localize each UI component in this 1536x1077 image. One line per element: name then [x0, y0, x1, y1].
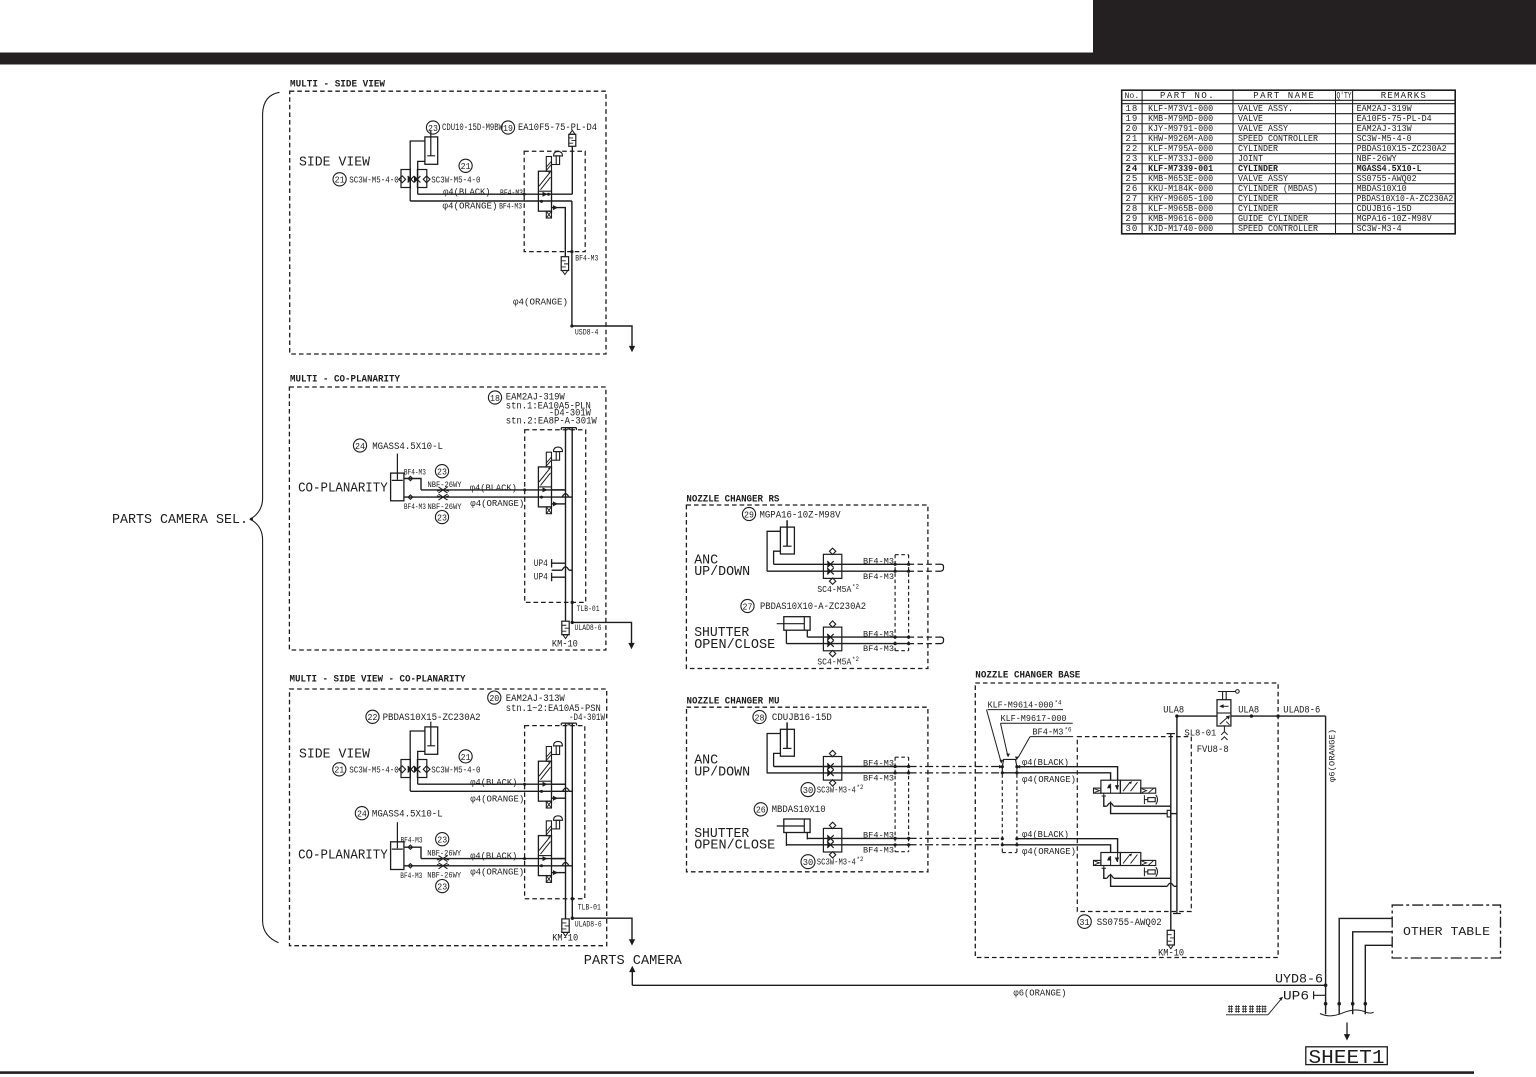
svg-text:PART NO.: PART NO. [1160, 91, 1215, 101]
svg-text:VALVE: VALVE [1238, 114, 1263, 124]
svg-text:BF4-M3: BF4-M3 [400, 871, 422, 881]
svg-text:ULAD8-6: ULAD8-6 [575, 623, 602, 633]
cylinder 26 shutter mu [784, 819, 810, 833]
svg-text:NOZZLE CHANGER MU: NOZZLE CHANGER MU [687, 696, 780, 708]
svg-text:CYLINDER (MBDAS): CYLINDER (MBDAS) [1238, 184, 1318, 194]
svg-text:KMB-M653E-000: KMB-M653E-000 [1148, 174, 1213, 184]
box MULTI - SIDE VIEW [290, 91, 606, 354]
svg-text:KHW-M926M-A00: KHW-M926M-A00 [1148, 134, 1213, 144]
svg-text:21: 21 [461, 161, 471, 172]
svg-text:ULA8: ULA8 [1238, 706, 1259, 717]
svg-text:PART NAME: PART NAME [1253, 91, 1315, 101]
svg-text:EA10F5-75-PL-D4: EA10F5-75-PL-D4 [518, 123, 597, 134]
svg-text:SC3W-M5-4-0: SC3W-M5-4-0 [1357, 134, 1412, 144]
svg-text:NBF-26WY: NBF-26WY [427, 849, 461, 859]
speed controller 30 SC3W-M3-4 mu lower [823, 828, 841, 852]
inner dashed box valves 20 [525, 726, 585, 899]
wire phi4 BLACK sec3 lower [421, 858, 566, 860]
svg-text:NBF-26WY: NBF-26WY [1357, 154, 1398, 164]
svg-text:MGASS4.5X10-L: MGASS4.5X10-L [372, 442, 443, 453]
dashed connector box rs [895, 555, 909, 651]
wire valve to filter [571, 146, 573, 194]
junction dots sec1 [523, 193, 526, 196]
svg-text:BF4-M3: BF4-M3 [863, 572, 894, 582]
filter KM-10 sec3 [562, 919, 569, 933]
wire phi4 ORANGE [410, 200, 572, 202]
svg-text:BF4-M3: BF4-M3 [404, 467, 426, 477]
svg-text:23: 23 [437, 512, 447, 523]
svg-text:φ4(ORANGE): φ4(ORANGE) [1022, 846, 1076, 857]
svg-text:SIDE VIEW: SIDE VIEW [299, 747, 371, 763]
svg-text:FVU8-8: FVU8-8 [1197, 745, 1229, 756]
svg-text:MGPA16-10Z-M98V: MGPA16-10Z-M98V [760, 510, 841, 521]
svg-text:φ6(ORANGE): φ6(ORANGE) [1013, 987, 1066, 998]
svg-text:31: 31 [1079, 917, 1090, 928]
svg-text:SC3W-M5-4-0: SC3W-M5-4-0 [431, 765, 480, 776]
svg-text:BF4-M3: BF4-M3 [1032, 727, 1063, 738]
label 26 MBDAS10X10 [754, 803, 767, 816]
svg-text:φ4(BLACK): φ4(BLACK) [1022, 757, 1069, 768]
svg-text:VALVE ASSY: VALVE ASSY [1238, 124, 1289, 134]
svg-text:JOINT: JOINT [1238, 154, 1264, 164]
svg-text:*6: *6 [1065, 727, 1072, 734]
svg-text:UP/DOWN: UP/DOWN [694, 766, 750, 781]
svg-text:30: 30 [803, 857, 814, 868]
svg-text:PARTS CAMERA: PARTS CAMERA [584, 953, 683, 969]
svg-text:UP4: UP4 [534, 573, 548, 584]
joint TLB-01 sec3 [571, 897, 574, 900]
svg-text:22: 22 [1125, 144, 1138, 154]
svg-text:OPEN/CLOSE: OPEN/CLOSE [694, 839, 775, 854]
joint TLB-01 [571, 601, 574, 604]
parts table [1122, 90, 1456, 234]
svg-text:CDUJB16-15D: CDUJB16-15D [772, 713, 832, 724]
wires ANC mu [774, 766, 909, 768]
wire phi4 BLACK base lower [1017, 839, 1118, 853]
svg-text:*2: *2 [857, 784, 864, 791]
svg-text:CYLINDER: CYLINDER [1238, 194, 1279, 204]
ULA8 line to right [1231, 715, 1326, 717]
svg-text:Q'TY: Q'TY [1337, 91, 1352, 101]
svg-text:φ4(BLACK): φ4(BLACK) [443, 187, 491, 198]
speed controller SC4-M5A rs lower [823, 627, 841, 651]
wire phi4 BLACK [418, 193, 573, 195]
cylinder 22 PBDAS10X15-ZC230A2 [425, 727, 438, 754]
manifold verticals sec3 [561, 723, 569, 725]
box MULTI - CO-PLANARITY [289, 387, 606, 650]
wire phi4 ORANGE sec3 lower [404, 865, 568, 867]
valve lower port [552, 503, 566, 505]
continuation dots [1324, 1002, 1328, 1006]
svg-text:18: 18 [490, 393, 500, 404]
wire phi4 BLACK sec3 upper [418, 783, 566, 785]
svg-text:SS0755-AWQ02: SS0755-AWQ02 [1357, 174, 1417, 184]
wire phi6 ORANGE right vertical [1325, 716, 1327, 1014]
svg-text:CDUJB16-15D: CDUJB16-15D [1357, 204, 1412, 214]
svg-text:OTHER TABLE: OTHER TABLE [1403, 926, 1490, 939]
svg-text:φ6(ORANGE): φ6(ORANGE) [1328, 729, 1338, 782]
flow control NBF-26WY pair [439, 487, 448, 493]
svg-text:NBF-26WY: NBF-26WY [428, 480, 462, 490]
label 23 lower [435, 510, 448, 523]
junction UYD8-6 [1324, 984, 1328, 988]
svg-text:26: 26 [756, 805, 766, 816]
valve 19 EA10F5-75-PL-D4 [546, 157, 551, 172]
wire phi4 ORANGE sec2 [404, 496, 568, 498]
part 22 PBDAS10X15-ZC230A2 label [366, 710, 379, 723]
svg-text:VALVE ASSY.: VALVE ASSY. [1238, 104, 1293, 114]
svg-text:SC4-M5A: SC4-M5A [817, 658, 852, 668]
valve 20 upper [546, 747, 551, 762]
part 19 EA10F5-75-PL-D4 label [501, 121, 514, 134]
svg-text:30: 30 [1125, 224, 1138, 234]
box NOZZLE CHANGER MU [687, 707, 928, 872]
svg-text:TLB-01: TLB-01 [577, 604, 600, 614]
svg-text:SC3W-M3-4: SC3W-M3-4 [1357, 224, 1402, 234]
label 21 SC3W-M5-4-0 left [333, 173, 346, 186]
svg-text:27: 27 [743, 601, 753, 612]
box NOZZLE CHANGER BASE [975, 683, 1278, 958]
svg-text:SL8-01: SL8-01 [1184, 727, 1216, 738]
svg-text:KLF-M7339-001: KLF-M7339-001 [1148, 164, 1214, 174]
svg-text:27: 27 [1125, 194, 1138, 204]
svg-text:KLF-M965B-000: KLF-M965B-000 [1148, 204, 1213, 214]
inner dashed box valve 19 [524, 151, 585, 251]
svg-text:PARTS CAMERA SEL.: PARTS CAMERA SEL. [112, 513, 248, 528]
svg-text:No.: No. [1125, 92, 1140, 101]
svg-text:*2: *2 [852, 584, 859, 591]
flow control NBF-26WY pair sec3 [439, 856, 448, 862]
svg-text:NBF-26WY: NBF-26WY [427, 871, 461, 881]
svg-text:φ4(BLACK): φ4(BLACK) [470, 850, 517, 861]
svg-text:MGASS4.5X10-L: MGASS4.5X10-L [372, 810, 443, 821]
svg-text:*2: *2 [852, 656, 859, 663]
valve FVU8-8 [1177, 715, 1217, 717]
footer black bar [0, 1071, 1474, 1074]
svg-text:CYLINDER: CYLINDER [1238, 164, 1279, 174]
svg-text:EAM2AJ-313W: EAM2AJ-313W [1357, 124, 1413, 134]
svg-text:BF4-M3: BF4-M3 [863, 759, 894, 769]
inner dashed box SS0755 [1077, 737, 1191, 912]
svg-text:24: 24 [355, 441, 365, 452]
svg-text:USD8-4: USD8-4 [575, 328, 599, 338]
svg-text:28: 28 [755, 712, 765, 723]
svg-text:φ4(ORANGE): φ4(ORANGE) [470, 794, 524, 805]
svg-text:CDU10-15D-M9BW: CDU10-15D-M9BW [442, 123, 503, 134]
label 18 EAM2AJ-319W [488, 391, 501, 404]
svg-text:CYLINDER: CYLINDER [1238, 144, 1279, 154]
svg-text:NOZZLE CHANGER BASE: NOZZLE CHANGER BASE [975, 670, 1080, 682]
valve 31 SS0755 upper [1094, 788, 1101, 793]
part 24 MGASS4.5X10-L label [353, 439, 366, 452]
svg-text:22: 22 [368, 712, 378, 723]
svg-text:φ4(ORANGE): φ4(ORANGE) [470, 498, 524, 509]
valve 18 EAM2AJ-319W [546, 452, 551, 467]
svg-text:BF4-M3: BF4-M3 [863, 845, 894, 855]
svg-text:ULAD8-6: ULAD8-6 [575, 920, 602, 930]
svg-text:BF4-M3: BF4-M3 [863, 774, 894, 784]
svg-text:CYLINDER: CYLINDER [1238, 204, 1279, 214]
svg-text:ULA8: ULA8 [1163, 706, 1184, 717]
svg-text:24: 24 [357, 809, 367, 820]
wire phi4 BLACK base upper [1017, 767, 1118, 781]
svg-text:stn.2:EA8P-A-301W: stn.2:EA8P-A-301W [506, 416, 597, 427]
svg-text:MULTI - CO-PLANARITY: MULTI - CO-PLANARITY [290, 374, 401, 386]
FVU8-8 lever [1218, 692, 1236, 700]
svg-text:TLB-01: TLB-01 [578, 903, 601, 913]
cylinder 23 CDU10-15D-M9BW [425, 137, 438, 164]
svg-text:*4: *4 [1055, 700, 1062, 707]
svg-text:φ4(BLACK): φ4(BLACK) [1022, 829, 1069, 840]
svg-text:23: 23 [1125, 154, 1138, 164]
svg-text:BF4-M3: BF4-M3 [401, 836, 423, 846]
cylinder 24 MGASS4.5X10-L [391, 473, 404, 501]
svg-text:SC3W-M5-4-0: SC3W-M5-4-0 [349, 765, 399, 776]
exhaust filter EA10F5 top [569, 134, 576, 146]
svg-text:KHY-M9605-100: KHY-M9605-100 [1148, 194, 1213, 204]
valve lower outputs [1104, 868, 1107, 878]
svg-text:φ4(BLACK): φ4(BLACK) [470, 483, 517, 494]
svg-text:BF4-M3: BF4-M3 [863, 831, 894, 841]
wire phi4 ORANGE base upper [1002, 773, 1110, 780]
svg-text:MULTI - SIDE VIEW: MULTI - SIDE VIEW [290, 79, 386, 91]
svg-text:24: 24 [1125, 164, 1138, 174]
header black bar [0, 53, 1536, 65]
OTHER TABLE wires [1339, 918, 1392, 1014]
svg-text:29: 29 [1125, 214, 1138, 224]
svg-text:SC3W-M3-4: SC3W-M3-4 [817, 786, 856, 796]
svg-text:21: 21 [461, 752, 471, 763]
svg-text:UP4: UP4 [534, 559, 548, 570]
wire orange down to USD8-4 [572, 201, 632, 349]
speed controller 21 SC3W-M5-4-0 left [401, 170, 410, 188]
speed controller 30 SC3W-M3-4 mu upper [823, 757, 841, 781]
valve 20 lower [546, 821, 551, 836]
svg-text:SS0755-AWQ02: SS0755-AWQ02 [1097, 918, 1162, 929]
filter KM-10 base [1167, 930, 1174, 945]
svg-text:UP6: UP6 [1283, 990, 1309, 1004]
svg-text:29: 29 [744, 509, 754, 520]
svg-text:UP/DOWN: UP/DOWN [694, 565, 750, 580]
svg-text:BF4-M3: BF4-M3 [863, 644, 894, 654]
label 23 lower sec3 [436, 880, 449, 893]
svg-text:PBDAS10X15-ZC230A2: PBDAS10X15-ZC230A2 [383, 713, 481, 724]
wires SHUTTER mu [807, 837, 908, 839]
svg-text:20: 20 [489, 693, 499, 704]
svg-text:SC3W-M3-4: SC3W-M3-4 [817, 858, 856, 868]
small dashed box connectors [1002, 768, 1017, 853]
svg-text:21: 21 [1125, 134, 1138, 144]
manifold verticals sec2 [561, 428, 569, 430]
label 23 upper [435, 465, 448, 478]
joint ULAD8-6 output [572, 622, 631, 645]
svg-text:30: 30 [803, 785, 814, 796]
svg-text:NOZZLE CHANGER RS: NOZZLE CHANGER RS [686, 494, 779, 506]
speed controller SC4-M5A rs upper [823, 554, 841, 578]
svg-text:VALVE ASSY: VALVE ASSY [1238, 174, 1289, 184]
label 29 MGPA16-10Z-M98V [742, 507, 755, 520]
part 24 MGASS4.5X10-L label sec3 [355, 807, 368, 820]
connector joint KLF [1002, 759, 1017, 766]
label 28 CDUJB16-15D [753, 710, 766, 723]
svg-text:BF4-M3: BF4-M3 [575, 253, 598, 263]
FVU8-8 exhaust [1221, 726, 1227, 740]
svg-text:KJD-M1740-000: KJD-M1740-000 [1148, 224, 1213, 234]
svg-text:26: 26 [1125, 184, 1138, 194]
guide cylinder 29 MGPA16 [780, 527, 794, 554]
wire valve lower port to breather [552, 208, 566, 257]
svg-text:REMARKS: REMARKS [1381, 91, 1427, 101]
speed controller 21 SC3W-M5-4-0 right [417, 760, 426, 778]
svg-text:KLF-M9614-000: KLF-M9614-000 [988, 700, 1054, 711]
label 21 SC3W-M5-4-0 right sec3 [459, 750, 472, 763]
joint ULAD8-6 output sec3 [572, 918, 632, 942]
svg-text:PBDAS10X10-A-ZC230A2: PBDAS10X10-A-ZC230A2 [760, 602, 866, 613]
leader lines to connector [987, 710, 1001, 761]
svg-text:SHEET1: SHEET1 [1309, 1047, 1385, 1069]
svg-text:BF4-M3: BF4-M3 [863, 557, 894, 567]
svg-text:23: 23 [437, 835, 447, 846]
svg-text:SIDE VIEW: SIDE VIEW [299, 155, 371, 171]
svg-text:21: 21 [334, 765, 344, 776]
label 21 SC3W-M5-4-0 left sec3 [333, 763, 346, 776]
box OTHER TABLE [1392, 905, 1500, 958]
label 20 EAM2AJ-313W [488, 691, 501, 704]
svg-text:φ4(ORANGE): φ4(ORANGE) [470, 866, 524, 877]
svg-text:MULTI - SIDE VIEW - CO-PLANARI: MULTI - SIDE VIEW - CO-PLANARITY [290, 674, 467, 686]
valve 31 SS0755 lower [1094, 860, 1101, 865]
breather filter BF4-M3 [561, 257, 568, 271]
label 21 SC3W-M5-4-0 right [459, 159, 472, 172]
svg-text:MGPA16-10Z-M98V: MGPA16-10Z-M98V [1357, 214, 1433, 224]
svg-text:PBDAS10X10-A-ZC230A2: PBDAS10X10-A-ZC230A2 [1357, 194, 1454, 204]
svg-text:BF4-M3: BF4-M3 [404, 502, 426, 512]
wire phi4 ORANGE sec3 upper [410, 790, 568, 792]
svg-text:KKU-M184K-000: KKU-M184K-000 [1148, 184, 1213, 194]
svg-text:BF4-M3: BF4-M3 [500, 188, 523, 198]
filter KM-10 sec2 [562, 621, 569, 635]
wire phi4 ORANGE base lower [1002, 845, 1110, 853]
svg-text:19: 19 [503, 123, 513, 134]
svg-text:21: 21 [335, 175, 345, 186]
svg-text:CO-PLANARITY: CO-PLANARITY [298, 848, 388, 864]
label 27 PBDAS10X10-A-ZC230A2 [741, 599, 754, 612]
svg-text:KM-10: KM-10 [552, 934, 578, 945]
svg-text:ULAD8-6: ULAD8-6 [1283, 706, 1320, 717]
part 23 CDU10-15D-M9BW label [426, 121, 439, 134]
svg-text:KLF-M9617-000: KLF-M9617-000 [1001, 713, 1067, 724]
wires SHUTTER rs [807, 636, 908, 638]
ULA8 rail [1176, 716, 1178, 911]
svg-text:φ4(BLACK): φ4(BLACK) [470, 777, 517, 788]
svg-text:NBF-26WY: NBF-26WY [428, 502, 462, 512]
speed controller 21 SC3W-M5-4-0 left [401, 760, 410, 778]
label 23 upper sec3 [436, 833, 449, 846]
svg-text:BF4-M3: BF4-M3 [863, 629, 894, 639]
SHEET1 box [1306, 1047, 1388, 1065]
svg-text:19: 19 [1125, 114, 1138, 124]
inner dashed box valve 18 [525, 430, 586, 603]
svg-text:MGASS4.5X10-L: MGASS4.5X10-L [1357, 164, 1422, 174]
svg-text:KLF-M73V1-000: KLF-M73V1-000 [1148, 104, 1213, 114]
svg-text:SC3W-M5-4-0: SC3W-M5-4-0 [431, 175, 480, 186]
svg-text:23: 23 [428, 123, 438, 134]
speed controller 21 SC3W-M5-4-0 right [417, 170, 426, 188]
svg-text:28: 28 [1125, 204, 1138, 214]
svg-text:EA10F5-75-PL-D4: EA10F5-75-PL-D4 [1357, 114, 1432, 124]
svg-text:20: 20 [1125, 124, 1138, 134]
svg-text:KMB-M9616-000: KMB-M9616-000 [1148, 214, 1213, 224]
svg-text:KM-10: KM-10 [1158, 949, 1184, 960]
svg-text:OPEN/CLOSE: OPEN/CLOSE [694, 638, 775, 653]
svg-text:KM-10: KM-10 [552, 639, 578, 650]
svg-text:*2: *2 [857, 856, 864, 863]
svg-text:UYD8-6: UYD8-6 [1275, 973, 1323, 987]
svg-text:KJY-M9791-000: KJY-M9791-000 [1148, 124, 1213, 134]
svg-text:KLF-M795A-000: KLF-M795A-000 [1148, 144, 1213, 154]
svg-text:PBDAS10X15-ZC230A2: PBDAS10X15-ZC230A2 [1357, 144, 1447, 154]
label 31 SS0755-AWQ02 [1078, 915, 1092, 929]
svg-text:EAM2AJ-319W: EAM2AJ-319W [1357, 104, 1413, 114]
svg-text:BF4-M3: BF4-M3 [499, 202, 522, 212]
svg-text:φ4(ORANGE): φ4(ORANGE) [1022, 774, 1076, 785]
guide cylinder 28 CDUJB16 [780, 729, 794, 756]
svg-text:KLF-M733J-000: KLF-M733J-000 [1148, 154, 1213, 164]
valve upper outputs [1104, 796, 1107, 806]
wire phi4 BLACK sec2 [421, 489, 566, 491]
svg-text:MBDAS10X10: MBDAS10X10 [1357, 184, 1407, 194]
wire phi6 ORANGE main line [632, 984, 1325, 986]
box MULTI - SIDE VIEW - CO-PLANARITY [290, 689, 607, 946]
svg-text:GUIDE CYLINDER: GUIDE CYLINDER [1238, 214, 1309, 224]
header black box top-right [1093, 0, 1536, 53]
svg-text:SC3W-M5-4-0: SC3W-M5-4-0 [349, 175, 399, 186]
svg-text:25: 25 [1125, 174, 1138, 184]
svg-text:18: 18 [1125, 104, 1138, 114]
selection brace [250, 92, 279, 943]
cylinder 27 shutter rs [784, 617, 810, 631]
svg-text:CO-PLANARITY: CO-PLANARITY [298, 481, 388, 497]
svg-text:φ4(ORANGE): φ4(ORANGE) [443, 201, 498, 212]
box NOZZLE CHANGER RS [686, 505, 928, 669]
svg-text:23: 23 [437, 881, 447, 892]
svg-text:SPEED CONTROLLER: SPEED CONTROLLER [1238, 134, 1319, 144]
joint UP4 middle link [552, 569, 563, 571]
break wavy line [1320, 1010, 1374, 1016]
arrow to SHEET1 [1346, 1023, 1348, 1037]
note standard multi axis (jp) [1228, 1005, 1233, 1013]
svg-text:23: 23 [437, 467, 447, 478]
valve right port to manifold [552, 489, 566, 491]
svg-text:φ4(ORANGE): φ4(ORANGE) [513, 297, 568, 308]
svg-text:MBDAS10X10: MBDAS10X10 [772, 805, 826, 816]
svg-text:SC4-M5A: SC4-M5A [817, 585, 852, 595]
dashed connector box mu [895, 757, 909, 852]
svg-text:SPEED CONTROLLER: SPEED CONTROLLER [1238, 224, 1319, 234]
wires ANC rs [774, 563, 909, 565]
supply rail SL8-01 [1170, 734, 1172, 931]
cylinder 24 MGASS4.5X10-L sec3 [391, 842, 404, 870]
svg-text:KMB-M79MD-000: KMB-M79MD-000 [1148, 114, 1213, 124]
